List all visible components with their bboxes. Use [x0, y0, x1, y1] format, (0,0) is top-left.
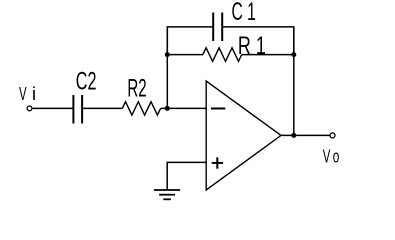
op-amp minus sign — [211, 108, 225, 110]
wire input to C2 — [33, 107, 74, 109]
capacitor C2 — [73, 95, 82, 124]
wire top row right of C1 — [222, 27, 294, 55]
svg-text:V: V — [19, 84, 27, 104]
capacitor C1 — [213, 13, 222, 42]
resistor R2 — [122, 102, 160, 115]
wire C2 to R2 — [83, 107, 122, 109]
svg-text:V: V — [323, 147, 331, 167]
svg-text:o: o — [333, 147, 340, 167]
junction node right R1 row — [291, 52, 296, 57]
junction node inverting input — [165, 106, 170, 111]
wire top row left of C1 — [167, 27, 213, 55]
wire vertical left feedback — [166, 27, 168, 109]
svg-text:R2: R2 — [127, 74, 146, 102]
input terminal Vi — [27, 106, 32, 111]
op-amp plus sign — [212, 157, 223, 168]
wire non-inverting input — [167, 162, 207, 190]
ground — [154, 190, 180, 199]
resistor R1 — [203, 48, 242, 62]
wire R1 row right — [242, 54, 294, 56]
svg-text:R 1: R 1 — [238, 32, 266, 60]
wire vertical right feedback — [293, 27, 295, 135]
output terminal Vo — [330, 133, 335, 138]
svg-text:i: i — [32, 84, 36, 104]
output wire — [281, 134, 330, 136]
wire R1 row left — [167, 54, 203, 56]
op-amp U1 triangle — [206, 81, 281, 190]
junction node output — [291, 133, 296, 138]
svg-text:C 1: C 1 — [232, 0, 256, 26]
svg-text:C2: C2 — [76, 67, 97, 95]
wire R2 to op-amp inverting input — [161, 107, 207, 109]
junction node left R1 row — [165, 52, 170, 57]
